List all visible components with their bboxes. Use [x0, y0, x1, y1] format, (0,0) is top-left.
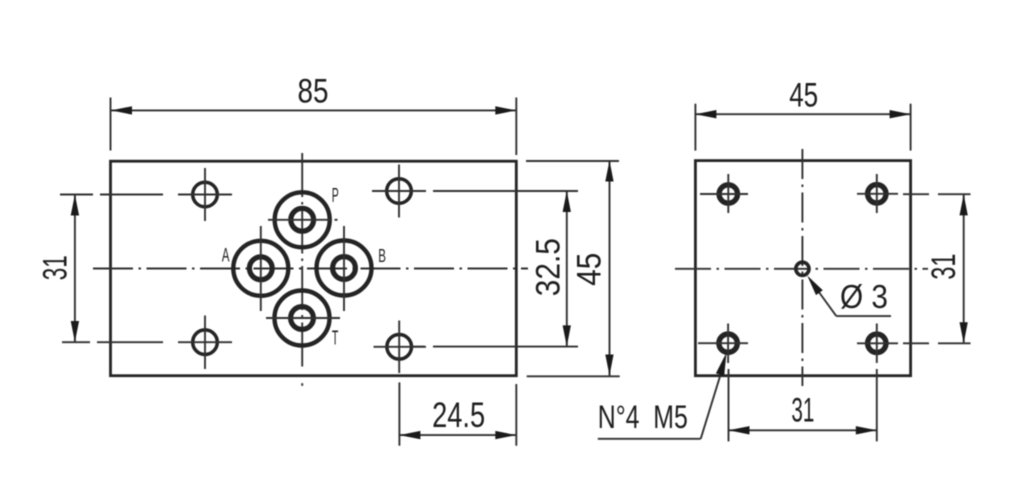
port T [266, 291, 340, 346]
mounting hole bottom-right (left view) [374, 321, 427, 374]
dimension 31 bottom (side view) [729, 369, 877, 441]
svg-text:N°4 M5: N°4 M5 [598, 399, 688, 435]
svg-text:P: P [332, 185, 339, 207]
port label B [378, 245, 386, 266]
dimension 45 top (side view) [695, 77, 910, 151]
port label T [332, 327, 339, 349]
side view plate outline [695, 161, 910, 376]
svg-text:31: 31 [36, 255, 74, 280]
top-left hole row extension line [60, 194, 163, 196]
side view hole top-right [857, 174, 898, 213]
svg-text:Ø 3: Ø 3 [840, 278, 888, 315]
side view center hole [796, 262, 809, 275]
svg-text:24.5: 24.5 [432, 396, 485, 435]
bottom-right hole row extension line to 32.5 dimension [412, 346, 578, 348]
svg-text:45: 45 [570, 253, 608, 286]
dimension 24.5 (bottom of left view) [399, 382, 516, 445]
port P [268, 192, 338, 247]
label diameter 3 with leader [807, 276, 891, 317]
left view vertical centerline [301, 153, 303, 386]
svg-text:85: 85 [298, 73, 329, 111]
svg-text:45: 45 [789, 77, 818, 115]
port label A [222, 245, 230, 266]
port A [233, 226, 288, 311]
side view hole top-left [700, 174, 748, 213]
svg-text:A: A [222, 245, 230, 266]
bottom-left hole row extension line [62, 341, 163, 343]
dimension 32.5 (left view right side) [530, 191, 571, 346]
side view vertical centerline [801, 149, 803, 386]
side view horizontal centerline [675, 268, 928, 270]
dimension 31 left (left view) [36, 195, 79, 343]
port B [317, 226, 372, 311]
top-right hole row extension line to 32.5 dimension [412, 190, 578, 192]
dimension 45 right (left view overall height) [526, 161, 620, 377]
label N4 M5 with leader [598, 353, 727, 439]
port label P [332, 185, 339, 207]
svg-text:31: 31 [925, 254, 963, 280]
svg-text:31: 31 [791, 392, 814, 430]
dimension 31 right (side view) [903, 194, 971, 343]
mounting hole top-left (left view) [178, 168, 232, 221]
svg-text:T: T [332, 327, 339, 349]
svg-text:32.5: 32.5 [530, 238, 568, 296]
svg-text:B: B [378, 245, 386, 266]
mounting hole top-right (left view) [372, 165, 426, 218]
side view hole bottom-left [698, 324, 748, 364]
left view plate outline [111, 161, 517, 376]
side view hole bottom-right [857, 324, 898, 364]
mounting hole bottom-left (left view) [178, 316, 232, 370]
dimension 85 [111, 73, 517, 156]
left view horizontal centerline [93, 268, 528, 270]
